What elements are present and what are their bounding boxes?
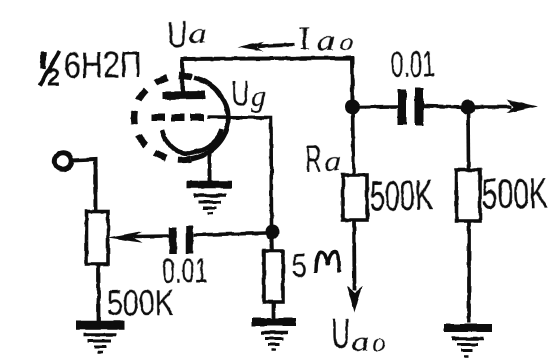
- svg-text:a: a: [324, 146, 341, 177]
- triode U1 cathode: [162, 129, 222, 154]
- svg-text:U: U: [331, 310, 351, 358]
- capacitor C2 0.01: [173, 226, 190, 254]
- svg-text:g: g: [251, 80, 266, 113]
- resistor R2: [457, 170, 481, 221]
- wire potentiometer to ground: [97, 264, 101, 322]
- value label 5M: [292, 247, 340, 284]
- node junction 2 (output node): [461, 100, 476, 115]
- wire junction2 down to R2: [466, 107, 470, 170]
- svg-text:I: I: [299, 20, 311, 57]
- ground (5M resistor): [252, 322, 296, 350]
- node label Ua (anode voltage): [167, 14, 208, 55]
- resistor Ra: [343, 175, 367, 220]
- capacitor C1 0.01: [402, 88, 419, 126]
- wire 5M to ground: [272, 302, 276, 319]
- node junction A (grid node): [266, 225, 280, 239]
- svg-text:R: R: [305, 139, 322, 181]
- label Ra: [305, 139, 342, 181]
- wire C2 to junction A: [194, 233, 267, 235]
- input terminal: [55, 153, 71, 169]
- resistor R4 5M: [264, 251, 283, 302]
- node junction 1 (anode node): [345, 100, 360, 115]
- current label Iao: [299, 20, 354, 57]
- svg-text:U: U: [167, 14, 188, 55]
- potentiometer wiper arrow: [108, 231, 170, 243]
- current arrow Iao (pointing left): [238, 42, 295, 52]
- arrow Uao (down from Ra): [347, 220, 363, 312]
- wire R2 to ground: [467, 221, 471, 323]
- svg-text:a: a: [351, 325, 369, 358]
- svg-text:5: 5: [292, 247, 308, 284]
- triode U1 grid: [152, 114, 210, 121]
- svg-text:500K: 500K: [481, 170, 548, 219]
- ground (cathode): [186, 185, 232, 214]
- svg-text:o: o: [339, 27, 353, 56]
- triode U1 envelope (dashed circle): [134, 76, 228, 160]
- wire junction1 to capacitor C1: [352, 105, 398, 109]
- wire junction1 down to Ra: [353, 107, 354, 175]
- triode U1 anode: [163, 91, 205, 100]
- svg-text:6Н2П: 6Н2П: [64, 44, 143, 86]
- label ½6Н2П (tube type): [40, 44, 143, 92]
- wire cathode to ground: [208, 147, 212, 182]
- svg-text:500K: 500K: [369, 172, 433, 221]
- svg-text:o: o: [372, 328, 385, 357]
- wire capacitor C1 to junction 2: [424, 106, 469, 107]
- ground (R2): [444, 328, 492, 357]
- potentiometer R3 body: [87, 212, 109, 265]
- svg-text:0.01: 0.01: [391, 43, 436, 85]
- wire anode to top-right corner: [181, 58, 353, 101]
- svg-text:a: a: [316, 24, 336, 57]
- output arrow (to the right): [468, 100, 538, 114]
- wire grid to junction A: [207, 117, 272, 228]
- wire junction A to 5M resistor: [270, 231, 274, 251]
- svg-text:a: a: [188, 17, 207, 50]
- node label Uao: [331, 310, 386, 358]
- ground (potentiometer): [76, 325, 124, 353]
- svg-text:U: U: [231, 73, 250, 114]
- node label Ug (grid voltage): [231, 73, 266, 114]
- svg-text:0.01: 0.01: [162, 251, 209, 291]
- wire input terminal to potentiometer: [72, 160, 97, 212]
- svg-text:2: 2: [46, 64, 60, 92]
